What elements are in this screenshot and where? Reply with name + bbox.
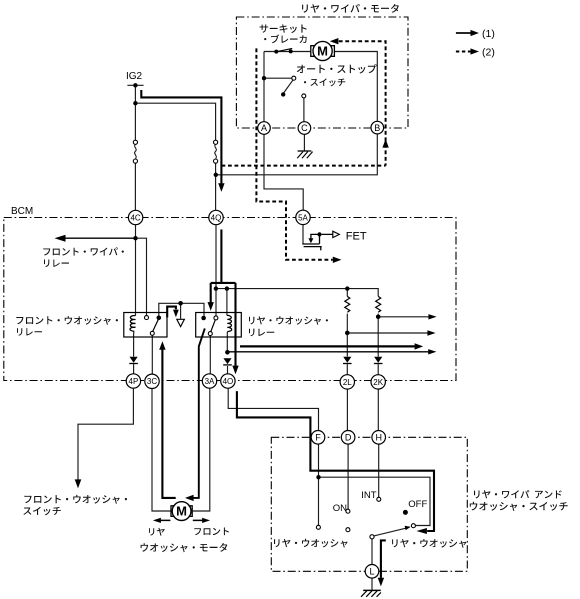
svg-text:A: A [261, 123, 267, 133]
svg-text:D: D [345, 433, 352, 443]
svg-text:B: B [374, 123, 380, 133]
svg-text:F: F [315, 433, 321, 443]
svg-text:(1): (1) [482, 28, 495, 40]
svg-text:3A: 3A [205, 377, 215, 386]
svg-text:L: L [369, 567, 374, 577]
svg-text:IG2: IG2 [126, 71, 143, 82]
svg-text:INT: INT [361, 490, 377, 501]
svg-text:(2): (2) [482, 47, 495, 59]
svg-text:2K: 2K [373, 378, 383, 387]
svg-text:BCM: BCM [11, 206, 33, 217]
svg-text:FET: FET [346, 231, 367, 243]
svg-text:OFF: OFF [408, 499, 427, 510]
svg-text:4Q: 4Q [211, 213, 222, 222]
svg-text:ON: ON [333, 503, 347, 514]
svg-text:2L: 2L [343, 378, 352, 387]
svg-text:3C: 3C [147, 377, 157, 386]
svg-text:H: H [375, 433, 382, 443]
svg-text:M: M [317, 44, 328, 59]
svg-text:4C: 4C [130, 213, 140, 222]
svg-text:5A: 5A [298, 213, 308, 222]
svg-text:M: M [176, 504, 187, 519]
svg-text:4P: 4P [129, 377, 139, 386]
svg-text:4O: 4O [223, 377, 234, 386]
svg-text:C: C [301, 123, 308, 133]
